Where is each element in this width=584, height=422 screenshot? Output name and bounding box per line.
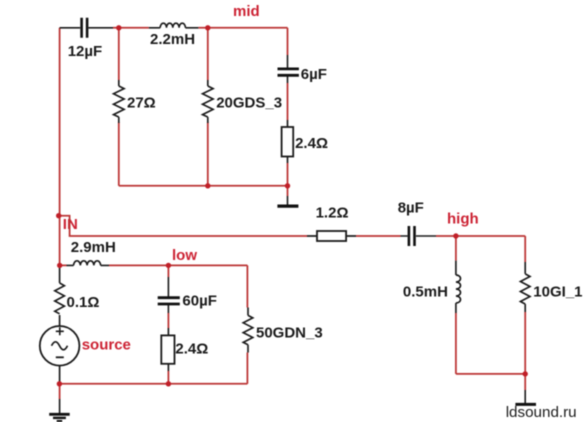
ground (source) earth lines bbox=[49, 413, 69, 416]
ground (mid) bbox=[277, 205, 298, 208]
junction dot mid bottom right bbox=[285, 183, 290, 188]
resistor R 27Ω zigzag bbox=[114, 86, 125, 117]
svg-text:2.9mH: 2.9mH bbox=[71, 239, 116, 256]
inductor L 2.9mH coil bbox=[74, 261, 101, 266]
capacitor C 12µF pins bbox=[60, 27, 113, 29]
svg-text:60µF: 60µF bbox=[182, 292, 217, 309]
junction dot mid bottom 20GDS bbox=[205, 183, 210, 188]
capacitor C 6µF pins bbox=[287, 55, 289, 83]
junction dot high bbox=[453, 233, 458, 238]
svg-text:1.2Ω: 1.2Ω bbox=[316, 205, 349, 222]
wire high 0.5mH branch bbox=[455, 236, 457, 374]
resistor 20GDS_3 zigzag bbox=[203, 86, 214, 117]
wire 60uF to 2.4ohm low bbox=[167, 313, 169, 328]
svg-text:10GI_1: 10GI_1 bbox=[533, 284, 582, 301]
source sine symbol bbox=[52, 342, 68, 350]
wire low 60uF branch upper bbox=[167, 265, 169, 277]
inductor L 2.2mH coil bbox=[160, 23, 185, 28]
svg-text:low: low bbox=[172, 247, 197, 264]
inductor L 0.5mH coil bbox=[456, 275, 461, 303]
capacitor C 8µF pins bbox=[401, 235, 437, 237]
wire 6uF to 2.4ohm bbox=[287, 83, 289, 186]
resistor 50GDN_3 zigzag bbox=[243, 315, 253, 344]
junction dot top wire left bbox=[116, 25, 121, 30]
capacitor C 6µF plates bbox=[278, 69, 299, 75]
svg-text:12µF: 12µF bbox=[68, 43, 103, 60]
resistor R 2.4Ω (mid) body bbox=[282, 127, 294, 157]
resistor R 2.4Ω (low) body bbox=[161, 335, 174, 363]
wire IN step to main horizontal bbox=[59, 216, 307, 236]
junction dot 2.9mH left bbox=[57, 263, 62, 268]
svg-text:2.2mH: 2.2mH bbox=[150, 31, 195, 48]
capacitor C 8µF plates bbox=[409, 226, 415, 246]
svg-text:high: high bbox=[447, 211, 479, 228]
resistor R 0.1Ω pins bbox=[59, 267, 61, 326]
capacitor C 12µF plates bbox=[82, 18, 88, 38]
source V1 circle bbox=[40, 326, 80, 366]
resistor R 1.2Ω body bbox=[317, 231, 346, 241]
svg-text:mid: mid bbox=[233, 3, 260, 20]
svg-text:2.4Ω: 2.4Ω bbox=[175, 341, 208, 358]
resistor R 0.1Ω zigzag bbox=[55, 283, 65, 314]
wire left vertical (top corner to source branch) bbox=[59, 28, 61, 267]
resistor R 27Ω pins bbox=[118, 80, 120, 123]
wire mid bottom horizontal bbox=[119, 185, 288, 187]
wire mid ground stub bbox=[287, 186, 289, 196]
svg-text:2.4Ω: 2.4Ω bbox=[295, 135, 328, 152]
inductor L 2.9mH pins bbox=[67, 264, 110, 266]
resistor R 2.4Ω (mid) pins bbox=[287, 120, 289, 163]
ground (high) bbox=[515, 403, 536, 406]
junction dot low bottom bbox=[166, 381, 171, 386]
source minus sign bbox=[56, 356, 64, 358]
junction dot high bottom bbox=[523, 371, 528, 376]
resistor 50GDN_3 pins bbox=[247, 308, 249, 353]
svg-text:source: source bbox=[82, 337, 131, 354]
wire 2.9mH line bbox=[60, 265, 248, 307]
resistor R 1.2Ω pins bbox=[307, 235, 356, 237]
wire 8uF to high node and top of high box bbox=[436, 236, 525, 262]
svg-text:6µF: 6µF bbox=[301, 66, 327, 83]
svg-text:ldsound.ru: ldsound.ru bbox=[506, 404, 577, 421]
svg-text:50GDN_3: 50GDN_3 bbox=[256, 325, 323, 342]
wire 50GDN_3 lower bbox=[246, 353, 248, 384]
junction dot IN bbox=[56, 213, 61, 218]
junction dot source bottom bbox=[57, 381, 62, 386]
svg-text:27Ω: 27Ω bbox=[127, 95, 156, 112]
resistor 10GI_1 pins bbox=[524, 262, 526, 312]
inductor L 2.2mH pins bbox=[149, 27, 199, 29]
resistor R 2.4Ω (low) pins bbox=[167, 328, 169, 371]
svg-text:0.1Ω: 0.1Ω bbox=[67, 294, 100, 311]
svg-text:20GDS_3: 20GDS_3 bbox=[216, 94, 282, 111]
wire high bottom horizontal bbox=[456, 373, 525, 375]
resistor 20GDS_3 pins bbox=[207, 80, 209, 123]
capacitor C 60µF pins bbox=[167, 277, 169, 313]
svg-text:8µF: 8µF bbox=[398, 200, 424, 217]
wire 27ohm branch bbox=[118, 28, 120, 186]
wire high ground stub bbox=[524, 374, 526, 390]
resistor 10GI_1 zigzag bbox=[520, 274, 530, 304]
wire low bottom horizontal bbox=[59, 383, 247, 385]
wire source ground stub bbox=[59, 384, 61, 399]
wire below 2.4ohm low bbox=[167, 371, 169, 384]
wire 20GDS_3 branch bbox=[207, 28, 209, 186]
wire source bottom bbox=[59, 366, 61, 384]
source plus sign bbox=[56, 327, 64, 335]
inductor L 0.5mH pins bbox=[455, 261, 457, 313]
capacitor C 60µF plates bbox=[158, 298, 180, 304]
wire 10GI_1 lower bbox=[524, 312, 526, 374]
svg-text:0.5mH: 0.5mH bbox=[403, 284, 448, 301]
wire 1.2ohm to 8uF bbox=[356, 235, 401, 237]
junction dot top wire right bbox=[205, 25, 210, 30]
junction dot low bbox=[166, 263, 171, 268]
wire top horizontal red (after 12uF cap to mid corner, down to 6uF) bbox=[113, 28, 288, 55]
